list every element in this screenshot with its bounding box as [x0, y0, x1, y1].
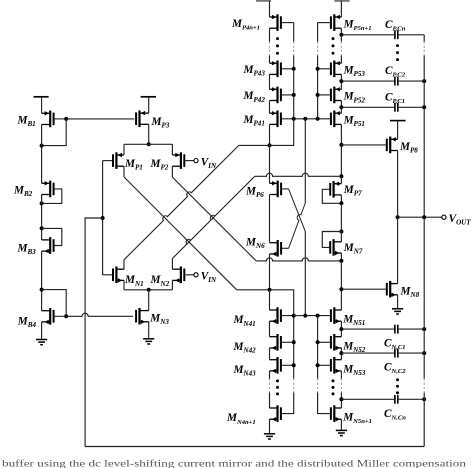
wire M_B2 drain to M_B3	[41, 195, 43, 240]
port V_IN (upper)	[194, 159, 198, 163]
dots M_P4 chain continuation	[276, 37, 279, 40]
transistor M_P8	[387, 137, 398, 154]
transistor M_N53	[331, 357, 342, 374]
transistor M_N8	[387, 281, 398, 298]
transistor M_N6	[270, 240, 282, 257]
power VDD rail (M_P5 chain)	[334, 0, 349, 2]
wire M_P6 gate diagonal to lower middle vertical	[282, 188, 289, 190]
wire M_P5 gate bus with dotted break	[317, 23, 319, 42]
transistor M_P7	[330, 181, 341, 198]
transistor M_N42	[270, 334, 281, 351]
node M_P43 gate on bus	[292, 67, 296, 71]
power VDD rail (M_B1)	[34, 96, 49, 98]
wire M_P7 source	[340, 176, 342, 183]
wire M_P4 chain segment with dotted break	[269, 28, 271, 41]
ground (M_N8)	[392, 309, 403, 314]
wire M_N1 source down	[123, 280, 125, 289]
wire M_P2 gate to VIN	[185, 160, 194, 162]
wire M_N4 chain 41-42	[269, 321, 271, 337]
power VDD rail (M_P3)	[141, 96, 156, 98]
wire M_N1 gate lead	[103, 274, 112, 276]
node M_P53 gate on bus	[316, 67, 320, 71]
node M_B1 gate-drain junction	[64, 117, 68, 121]
wire M_B3 diode loop	[42, 228, 62, 245]
wire middle vertical upper segment	[304, 119, 306, 203]
node tail junction	[147, 288, 151, 292]
svg-text:buffer using the dc level-shif: buffer using the dc level-shifting curre…	[2, 459, 466, 468]
wire M_P5 chain n+1 to C_P,Cn tap	[340, 28, 342, 35]
wire M_N4n+1 source to ground	[269, 419, 271, 434]
node M_P7 drain	[339, 201, 343, 205]
wire M_P53 gate to bus	[318, 68, 330, 70]
port V_IN (lower)	[194, 273, 198, 277]
wire M_B1 gate lead	[55, 118, 67, 120]
wire M_P8 gate lead	[341, 144, 385, 146]
transistor M_P52	[331, 87, 342, 104]
node C_P,C2 tap	[339, 79, 343, 83]
node M_B4 gate-drain junction	[40, 288, 44, 292]
wire VDD stem M_P8	[397, 121, 399, 140]
wire M_P4 gate bus with dotted break	[293, 23, 295, 42]
wire bias line M_B4 to M_N3 with hop	[66, 313, 133, 316]
ground (M_N4 chain)	[264, 434, 275, 439]
capacitor C_P,C1	[341, 106, 395, 108]
node M_N53 gate on bus	[316, 363, 320, 367]
node middle vertical on gate line	[303, 117, 307, 121]
transistor M_N4n+1	[270, 405, 281, 422]
wire M_P51 drain down	[340, 124, 342, 144]
wire M_N2 gate to VIN	[185, 274, 194, 276]
ground (M_N5 chain)	[336, 430, 347, 435]
wire middle vertical lower segment	[304, 231, 306, 315]
wire M_P3 drain down	[148, 124, 150, 144]
capacitor C_N,C1	[341, 328, 395, 330]
capacitor C_P,C2	[341, 80, 395, 82]
node M_P8 gate node	[339, 143, 343, 147]
wire M_P5 chain 53 to C_P,C2 tap	[340, 74, 342, 89]
node M_N5 gate bus on N gate line	[316, 314, 320, 318]
wire M_N6 gate diagonal to upper middle vertical	[282, 247, 289, 249]
node M_P52 gate on bus	[316, 93, 320, 97]
node C_N,Cn right	[422, 397, 426, 401]
wire M_N3 drain up	[148, 290, 150, 311]
wire M_P4 chain 43-42	[269, 74, 271, 89]
wire output line	[398, 216, 442, 218]
wire M_B4 source to ground	[41, 322, 43, 340]
dots C_P column continuation	[396, 44, 399, 47]
node output at M_P8 drain	[396, 215, 400, 219]
node M_P42 gate on bus	[292, 93, 296, 97]
wire M_P41 drain down	[269, 124, 271, 145]
wire M_N52 source to C_N,C2 tap	[340, 348, 342, 360]
node M_N8 gate node	[339, 287, 343, 291]
node M_B2 gate-drain junction	[40, 201, 44, 205]
node feedback tap	[101, 216, 105, 220]
transistor M_P3	[136, 110, 149, 127]
wire P-mirror input down to M_P6 source	[269, 145, 271, 183]
transistor M_B4	[42, 308, 54, 325]
ground (M_N3)	[143, 339, 154, 344]
wire VDD stem M_P4 chain	[269, 1, 271, 17]
node M_B3 gate-drain junction	[40, 226, 44, 230]
node M_P7 source node	[339, 174, 343, 178]
node M_N7 source node	[339, 259, 343, 263]
transistor M_N52	[331, 334, 342, 351]
wire M_N4 chain 42-43	[269, 348, 271, 360]
power VDD rail (M_P8)	[390, 120, 406, 122]
transistor M_P43	[270, 61, 281, 78]
wire M_P5 chain dotted break	[340, 35, 342, 42]
node C_N,C1 tap	[339, 327, 343, 331]
transistor M_N3	[136, 308, 149, 325]
node N-mirror input	[268, 288, 272, 292]
wire P-pair source rail	[124, 143, 172, 145]
wire M_N52 gate to bus	[318, 341, 330, 343]
wire M_P42 gate to bus	[282, 94, 294, 96]
wire M_N6 source down to N-mirror input	[269, 254, 271, 290]
port V_OUT	[442, 215, 446, 219]
wire right vertical bottom with dotted break	[423, 217, 425, 378]
wire right vertical top with dotted break	[423, 35, 425, 42]
node output feedback junction	[422, 215, 426, 219]
wire M_N42 gate to bus	[282, 341, 294, 343]
node C_P,C2 right	[422, 79, 426, 83]
transistor M_B1	[42, 111, 54, 128]
node middle vertical on N gate line	[303, 314, 307, 318]
wire M_N2 source down	[171, 280, 173, 289]
transistor M_P53	[331, 61, 342, 78]
node C_N,C2 right	[422, 351, 426, 355]
wire M_P2 source up	[171, 144, 173, 155]
node C_P,Cn tap	[339, 33, 343, 37]
wire M_N2 drain diagonal to P-side node	[171, 259, 173, 270]
wire M_P4n+1 gate to bus	[282, 22, 294, 24]
wire M_N5n+1 source to ground	[340, 419, 342, 430]
transistor M_N41	[270, 307, 281, 324]
wire M_N7 gate-drain diode	[322, 232, 341, 248]
transistor M_N2	[172, 267, 184, 284]
wire M_P1 gate lead	[103, 160, 112, 162]
node M_N42 gate on bus	[292, 340, 296, 344]
wire M_P4 chain 42-41	[269, 101, 271, 114]
node M_N43 gate on bus	[292, 363, 296, 367]
wire M_P8 drain to output	[397, 151, 399, 218]
transistor M_N51	[331, 307, 342, 324]
transistor M_N5n+1	[331, 405, 342, 422]
wire M_P5n+1 gate to bus	[318, 22, 330, 24]
node M_P3 drain at source rail	[147, 142, 151, 146]
transistor M_N1	[113, 267, 124, 284]
wire M_B3 source to M_B4	[41, 251, 43, 311]
wire bottom feedback rail	[85, 446, 424, 448]
wire M_P5 chain 52 to C_P,C1 tap	[340, 101, 342, 114]
wire M_P43 gate to bus	[282, 68, 294, 70]
node M_B4 gate junction	[64, 314, 68, 318]
wire output down to M_N8 drain	[397, 217, 399, 283]
node M_N41 gate on bus	[292, 314, 296, 318]
wire VDD to M_B1 source	[41, 98, 43, 114]
wire M_P41 gate line	[282, 118, 318, 120]
wire M_B4 gate lead	[55, 315, 67, 317]
wire node down to M_N8 gate node	[340, 261, 342, 289]
wire M_N5 chain with dotted break	[340, 371, 342, 379]
wire M_N4 chain with dotted break	[269, 371, 271, 379]
dots C_N column continuation	[396, 378, 399, 381]
wire M_N4 gate bus	[270, 290, 294, 366]
wire M_B4 diode loop	[42, 290, 67, 317]
transistor M_N7	[330, 239, 341, 256]
wire M_N7 source down	[340, 253, 342, 261]
transistor M_P41	[270, 111, 281, 128]
transistor M_B2	[42, 181, 54, 198]
node C_N,Cn tap	[339, 397, 343, 401]
wire M_N51 source to C_N,C1 tap	[340, 321, 342, 337]
wire N-mirror input to M_N41 drain	[269, 290, 271, 310]
node P-mirror input	[268, 143, 272, 147]
wire M_P52 gate to bus	[318, 94, 330, 96]
wire M_P7 drain to M_N7 drain	[340, 203, 342, 231]
wire N-pair source rail	[124, 289, 172, 291]
node C_P,C1 tap	[339, 105, 343, 109]
capacitor C_P,Cn	[341, 34, 395, 36]
node M_B1 drain	[40, 144, 44, 148]
wire M_N3 source to ground	[148, 322, 150, 339]
wire M_N41 gate line	[294, 315, 330, 317]
wire M_N1 drain diagonal to P-mirror input	[123, 260, 125, 269]
wire M_N43 gate to bus	[282, 364, 294, 366]
transistor M_P4n+1	[270, 14, 281, 31]
wire M_P51 node down to M_P7	[340, 145, 342, 176]
wire M_P1-M_N1 gate bus	[102, 161, 104, 275]
wire M_N8 gate lead	[341, 288, 385, 290]
wire M_P1 source up	[123, 144, 125, 155]
transistor M_P5n+1	[331, 14, 342, 31]
transistor M_P6	[270, 181, 282, 198]
wire M_B1 drain to M_B2	[41, 125, 43, 184]
transistor M_P51	[331, 111, 342, 128]
wire feedback to left vertical	[85, 218, 103, 447]
wire node down to M_N51 drain	[340, 289, 342, 310]
capacitor C_N,C2	[341, 352, 395, 354]
transistor M_P42	[270, 87, 281, 104]
node M_N52 gate on bus	[316, 340, 320, 344]
node C_N,C2 tap	[339, 351, 343, 355]
wire M_P6 drain to M_N6 drain	[269, 195, 271, 243]
node C_P,C1 right	[422, 105, 426, 109]
wire VDD stem M_P5 chain	[340, 1, 342, 17]
transistor M_P1	[113, 152, 124, 169]
wire M_P2 drain diagonal to N-side node	[171, 166, 173, 177]
dots M_P5 chain continuation	[332, 37, 335, 40]
wire M_N8 source to ground	[397, 295, 399, 309]
transistor M_B3	[42, 237, 54, 254]
wire M_P3 source to VDD	[148, 98, 150, 114]
wire M_B2 diode loop	[42, 189, 62, 204]
wire M_B1 gate to M_P3 gate	[66, 118, 134, 120]
node M_P41 gate on bus	[292, 117, 296, 121]
transistor M_P2	[172, 152, 184, 169]
capacitor C_N,Cn	[341, 398, 395, 400]
power VDD rail (M_P4 chain)	[256, 0, 271, 2]
dots M_N5 chain continuation	[332, 379, 335, 382]
wire M_N5 gate bus	[317, 316, 319, 366]
node M_N7 drain	[339, 230, 343, 234]
wire M_N53 gate to bus	[318, 364, 330, 366]
transistor M_N43	[270, 357, 281, 374]
wire M_B1 diode loop	[42, 119, 67, 146]
node C_N,C1 right	[422, 327, 426, 331]
wire M_P7 gate-drain diode	[322, 189, 341, 203]
node M_P5 gate bus on gate line	[316, 117, 320, 121]
wire bus to P-mirror input	[270, 119, 294, 146]
wire M_P1 drain diagonal to N-mirror input	[123, 166, 125, 177]
wire M_N41 gate to bus	[282, 315, 294, 317]
dots M_N4 chain continuation	[276, 379, 279, 382]
ground (M_B4)	[36, 340, 47, 345]
